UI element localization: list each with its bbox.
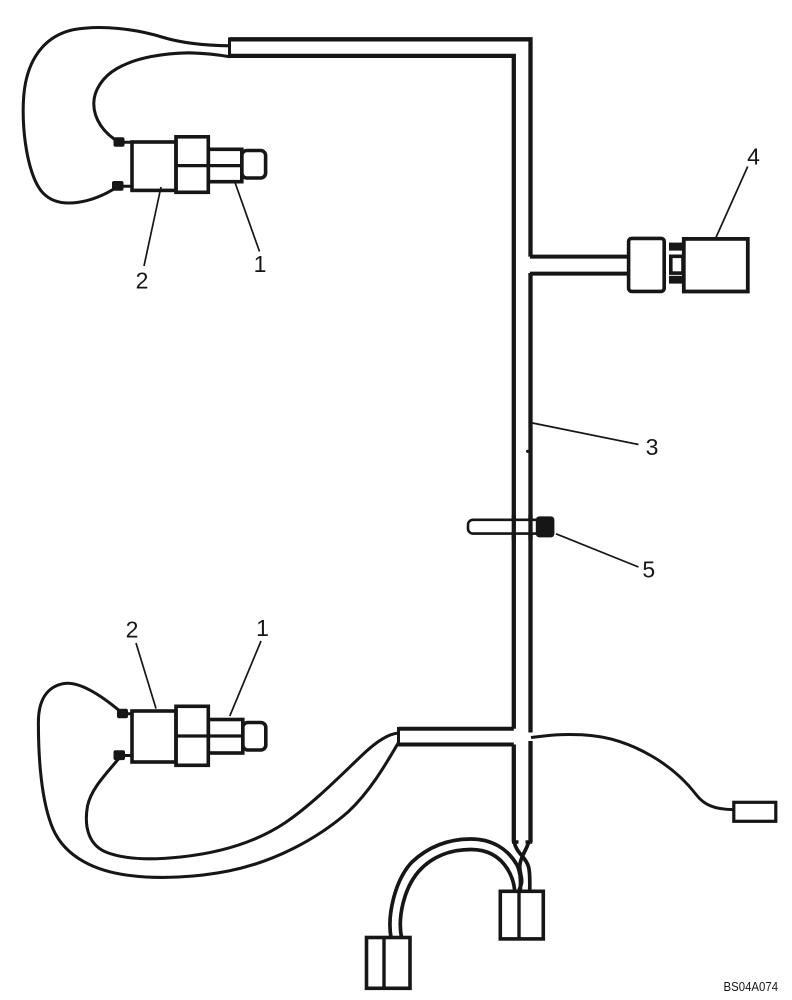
switch 2 bottom hex mid line: [176, 734, 208, 737]
switch 2 bottom wire upper loop: [38, 683, 398, 877]
arc wire outer to left connector: [390, 839, 521, 938]
connector 4 upper tab: [669, 243, 683, 251]
connector 4 receptacle body: [684, 239, 748, 292]
switch 2 top hex mid line: [176, 164, 208, 167]
connector 4 plug body: [629, 238, 665, 291]
switch 2 top terminal lower: [112, 181, 124, 191]
clamp 5 strap: [468, 520, 546, 534]
svg-text:2: 2: [126, 617, 139, 643]
switch 2 bottom terminal upper: [117, 709, 128, 719]
switch 1 bottom tip: [243, 723, 266, 751]
harness main tube top horizontal inner line: [230, 56, 514, 729]
bottom left connector divider: [382, 938, 385, 989]
switch 1 bottom threaded mid line: [208, 734, 243, 737]
switch 2 bottom wire lower loop: [86, 733, 398, 859]
harness vertical right line middle segment: [528, 273, 532, 733]
switch 2 top body: [132, 142, 176, 190]
switch 2 bottom terminal lower: [114, 750, 126, 760]
bottom right connector divider: [517, 891, 520, 939]
connector 4 latch: [671, 256, 683, 273]
switch 2 top terminal upper: [114, 137, 125, 147]
svg-text:1: 1: [254, 251, 267, 277]
leader line 4: [715, 167, 747, 240]
harness main tube top horizontal outer line: [230, 39, 531, 256]
harness tube left end cap: [228, 38, 231, 58]
leader line 5: [556, 534, 639, 567]
svg-text:BS04A074: BS04A074: [724, 979, 779, 994]
bottom right connector: [500, 891, 543, 939]
small nick on harness line: [526, 450, 529, 453]
switch 1 top threaded mid line: [208, 164, 242, 167]
svg-text:5: 5: [642, 557, 655, 583]
switch 2 top wire upper: [94, 53, 230, 142]
small right connector: [734, 802, 776, 821]
leader line 3: [533, 423, 639, 445]
switch 2 bottom hex: [176, 706, 208, 765]
clamp 5 strap crossing harness left line: [512, 515, 516, 540]
harness tube bottom end cap hooks: [512, 840, 532, 843]
wire from harness end left to right cavity: [515, 843, 530, 892]
leader line 1 top: [235, 183, 260, 252]
harness vertical left line lower segment: [512, 745, 516, 843]
switch 2 bottom terminal stems: [122, 714, 132, 756]
switch 1 bottom threaded section: [208, 720, 243, 754]
connector 4 lower tab: [669, 276, 683, 284]
thin wire to right small connector: [531, 734, 734, 809]
switch 2 top wire lower: [23, 28, 230, 203]
bottom left connector: [367, 938, 411, 989]
switch 2 top terminal upper stem: [121, 142, 132, 186]
leader line 2 top: [144, 187, 161, 266]
leader line 1 bottom: [230, 641, 261, 716]
branch tube to connector 4: [530, 257, 629, 274]
branch tube bottom left: [399, 729, 514, 745]
branch tube bottom left end cap: [397, 727, 400, 746]
svg-text:1: 1: [256, 615, 269, 641]
wire from harness end right crossing left: [519, 843, 529, 892]
switch 2 bottom body: [132, 711, 176, 762]
arc wire inner to left connector: [400, 850, 514, 938]
leader line 2 bottom: [136, 643, 156, 709]
svg-text:3: 3: [646, 434, 659, 460]
switch 1 top tip: [242, 151, 266, 179]
clamp 5 block: [536, 516, 555, 537]
switch 1 top threaded section: [208, 149, 242, 181]
clamp 5 strap crossing harness right line: [528, 515, 532, 540]
switch 2 top hex: [176, 137, 208, 193]
svg-text:2: 2: [136, 268, 149, 294]
harness vertical right line lower segment: [528, 741, 532, 842]
svg-text:4: 4: [747, 144, 760, 170]
